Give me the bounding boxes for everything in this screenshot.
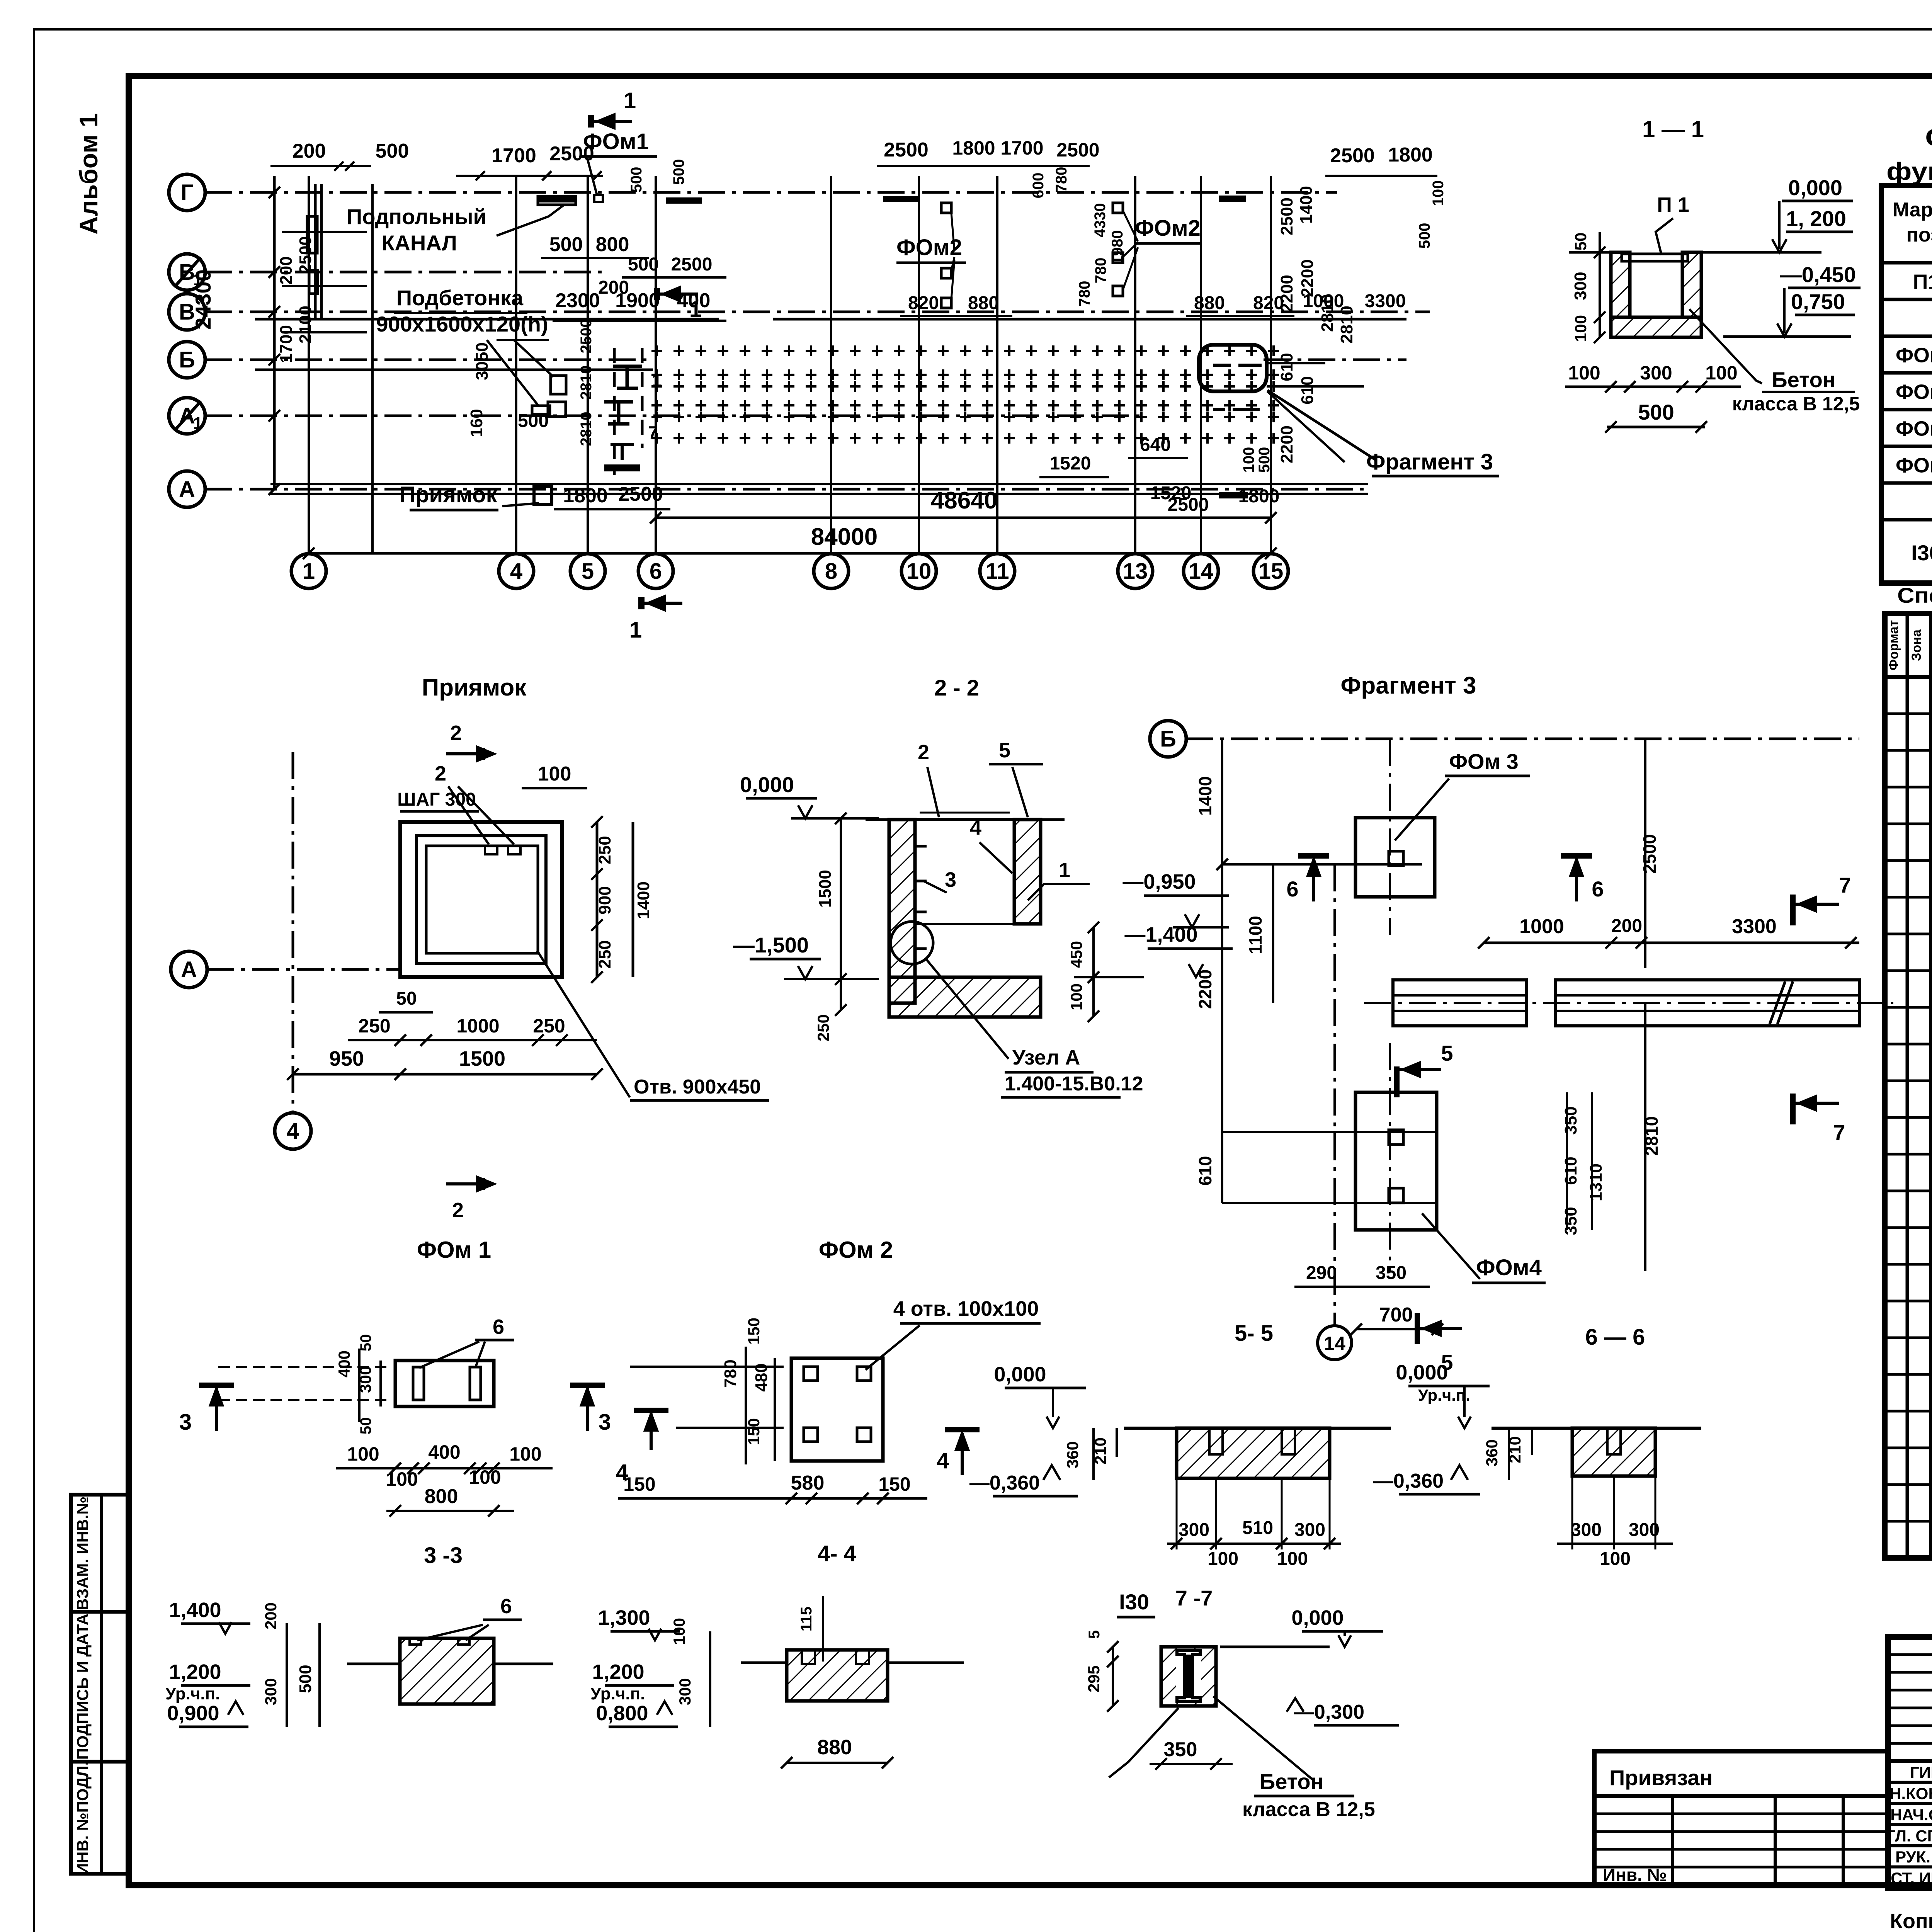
svg-text:1: 1 <box>1059 859 1070 882</box>
svg-text:3300: 3300 <box>1732 915 1777 938</box>
svg-text:Б: Б <box>1160 726 1176 752</box>
svg-text:2500: 2500 <box>1639 834 1660 874</box>
svg-text:6: 6 <box>650 559 662 584</box>
svg-text:2500: 2500 <box>1330 145 1375 167</box>
svg-text:1500: 1500 <box>816 870 835 908</box>
svg-text:1 — 1: 1 — 1 <box>1642 116 1704 142</box>
svg-text:24300: 24300 <box>191 269 215 330</box>
svg-text:610: 610 <box>1195 1156 1215 1186</box>
svg-text:350: 350 <box>1164 1738 1197 1761</box>
svg-text:300: 300 <box>676 1678 694 1705</box>
svg-text:2500: 2500 <box>1056 139 1099 161</box>
svg-text:2500: 2500 <box>296 236 315 274</box>
svg-text:—1,400: —1,400 <box>1124 923 1197 946</box>
svg-text:100: 100 <box>1705 362 1737 384</box>
svg-text:780: 780 <box>1053 167 1070 193</box>
svg-text:290: 290 <box>1306 1263 1337 1283</box>
svg-text:900х1600х120(h): 900х1600х120(h) <box>376 312 548 336</box>
svg-text:7 -7: 7 -7 <box>1175 1586 1213 1610</box>
svg-text:Спецификация элементов приямка: Спецификация элементов приямка, фундамен… <box>1897 583 1932 607</box>
svg-text:3: 3 <box>179 1410 192 1435</box>
svg-text:1400: 1400 <box>1195 776 1215 816</box>
svg-text:200: 200 <box>277 256 296 284</box>
svg-text:Альбом 1: Альбом 1 <box>74 113 103 235</box>
svg-text:1400: 1400 <box>1297 186 1316 224</box>
svg-text:1, 200: 1, 200 <box>1786 206 1846 231</box>
svg-text:Бетон: Бетон <box>1772 367 1835 392</box>
svg-text:200: 200 <box>293 140 326 162</box>
svg-text:П1: П1 <box>1913 270 1932 294</box>
svg-text:4330: 4330 <box>1092 203 1109 238</box>
svg-text:ФОм1: ФОм1 <box>1896 344 1932 367</box>
svg-text:2500: 2500 <box>884 139 929 161</box>
svg-text:8: 8 <box>825 559 837 584</box>
svg-text:0,000: 0,000 <box>1788 175 1842 200</box>
svg-text:КАНАЛ: КАНАЛ <box>381 231 457 255</box>
svg-text:100: 100 <box>1568 362 1600 384</box>
svg-text:1,200: 1,200 <box>169 1660 221 1684</box>
svg-text:500: 500 <box>1256 447 1273 473</box>
svg-text:1: 1 <box>624 88 636 113</box>
svg-text:350: 350 <box>1561 1207 1580 1235</box>
svg-text:1700: 1700 <box>277 325 296 363</box>
svg-text:610: 610 <box>1298 376 1317 404</box>
svg-text:115: 115 <box>798 1607 815 1632</box>
svg-text:П 1: П 1 <box>1657 193 1689 216</box>
svg-text:Фрагмент 3: Фрагмент 3 <box>1366 449 1493 474</box>
svg-text:5: 5 <box>999 739 1010 762</box>
svg-text:2200: 2200 <box>1277 425 1296 463</box>
svg-text:100: 100 <box>1277 1549 1308 1569</box>
svg-text:13: 13 <box>1123 559 1148 584</box>
svg-text:класса В 12,5: класса В 12,5 <box>1242 1798 1375 1821</box>
svg-text:3 -3: 3 -3 <box>424 1543 463 1568</box>
svg-text:2200: 2200 <box>1298 259 1317 297</box>
svg-text:2810: 2810 <box>578 412 595 446</box>
svg-text:5: 5 <box>1441 1041 1453 1065</box>
svg-text:100: 100 <box>509 1443 541 1465</box>
svg-text:100: 100 <box>538 763 571 785</box>
svg-text:РУК. ГР.: РУК. ГР. <box>1895 1848 1932 1866</box>
svg-text:ФОм2: ФОм2 <box>896 235 962 260</box>
svg-text:1800: 1800 <box>1238 486 1280 507</box>
svg-text:300: 300 <box>262 1678 280 1705</box>
svg-text:2500: 2500 <box>671 254 713 275</box>
svg-text:600: 600 <box>1030 173 1047 199</box>
svg-text:880: 880 <box>968 293 999 313</box>
svg-text:2: 2 <box>435 762 446 785</box>
svg-text:1100: 1100 <box>1245 916 1265 954</box>
svg-text:48640: 48640 <box>931 487 997 514</box>
svg-text:780: 780 <box>1076 281 1093 307</box>
svg-text:6: 6 <box>500 1595 512 1618</box>
svg-text:0,900: 0,900 <box>167 1702 219 1725</box>
svg-text:1900: 1900 <box>615 289 660 312</box>
svg-text:100: 100 <box>1600 1549 1631 1569</box>
svg-text:Фрагмент 3: Фрагмент 3 <box>1341 672 1476 699</box>
svg-text:300: 300 <box>1571 1520 1602 1540</box>
svg-text:880: 880 <box>817 1736 852 1759</box>
svg-text:2500: 2500 <box>578 319 595 354</box>
svg-text:880: 880 <box>1194 293 1225 313</box>
svg-text:ФОм 2: ФОм 2 <box>819 1237 893 1263</box>
svg-text:Формат: Формат <box>1886 620 1901 670</box>
svg-text:5: 5 <box>1086 1630 1103 1639</box>
svg-text:250: 250 <box>358 1015 390 1037</box>
svg-text:800: 800 <box>596 233 629 256</box>
svg-text:0,750: 0,750 <box>1791 289 1845 314</box>
svg-text:200: 200 <box>262 1602 280 1629</box>
svg-text:580: 580 <box>791 1472 825 1494</box>
svg-text:950: 950 <box>329 1047 364 1070</box>
svg-text:640: 640 <box>1140 435 1171 455</box>
svg-text:—0,360: —0,360 <box>969 1472 1040 1494</box>
svg-text:200: 200 <box>1611 916 1642 936</box>
svg-text:Копировал: Копировал <box>1890 1910 1932 1932</box>
svg-text:150: 150 <box>745 1418 763 1445</box>
svg-text:ПОДПИСЬ И ДАТА: ПОДПИСЬ И ДАТА <box>73 1614 92 1760</box>
svg-text:100: 100 <box>1067 983 1085 1010</box>
svg-text:11: 11 <box>985 559 1009 584</box>
svg-text:4: 4 <box>510 559 522 584</box>
svg-text:2810: 2810 <box>1337 306 1356 344</box>
svg-text:1,400: 1,400 <box>169 1599 221 1622</box>
svg-text:ИНВ. №ПОДЛ.: ИНВ. №ПОДЛ. <box>73 1761 92 1875</box>
svg-text:700: 700 <box>1379 1304 1413 1326</box>
svg-text:0,800: 0,800 <box>596 1702 648 1725</box>
svg-text:ФОм3: ФОм3 <box>1896 417 1932 440</box>
svg-text:1: 1 <box>629 617 642 643</box>
svg-text:500: 500 <box>376 140 409 162</box>
svg-text:2100: 2100 <box>296 306 315 344</box>
svg-text:1: 1 <box>303 559 315 584</box>
svg-text:100: 100 <box>1571 315 1590 342</box>
svg-text:Приямок: Приямок <box>422 674 527 701</box>
svg-text:1,200: 1,200 <box>592 1660 644 1684</box>
svg-text:2810: 2810 <box>1318 294 1337 332</box>
svg-text:поз.: поз. <box>1906 224 1932 246</box>
svg-text:Отв. 900х450: Отв. 900х450 <box>634 1076 761 1098</box>
svg-text:А: А <box>179 477 195 502</box>
svg-text:1310: 1310 <box>1587 1163 1605 1201</box>
svg-text:4: 4 <box>616 1460 628 1485</box>
svg-text:100: 100 <box>1430 180 1447 206</box>
svg-text:2: 2 <box>450 721 462 745</box>
svg-text:1700: 1700 <box>1000 137 1043 159</box>
svg-text:400: 400 <box>335 1350 353 1378</box>
svg-text:Ур.ч.п.: Ур.ч.п. <box>165 1684 220 1703</box>
svg-text:300: 300 <box>1294 1520 1325 1540</box>
svg-text:СТ. ИНЖ.: СТ. ИНЖ. <box>1891 1869 1932 1887</box>
svg-text:300: 300 <box>1571 272 1590 300</box>
svg-text:510: 510 <box>1242 1518 1273 1538</box>
svg-text:2: 2 <box>918 741 929 764</box>
svg-text:1520: 1520 <box>1050 453 1091 474</box>
svg-text:6: 6 <box>493 1315 504 1338</box>
svg-text:500: 500 <box>628 167 645 193</box>
svg-text:ФОм4: ФОм4 <box>1896 454 1932 477</box>
svg-text:360: 360 <box>1483 1439 1501 1466</box>
svg-text:Б: Б <box>179 347 195 372</box>
svg-text:—0,950: —0,950 <box>1122 870 1196 893</box>
svg-text:7: 7 <box>1833 1120 1845 1145</box>
svg-text:2200: 2200 <box>1277 275 1296 313</box>
svg-text:—0,450: —0,450 <box>1780 262 1856 287</box>
svg-text:780: 780 <box>1092 258 1109 284</box>
svg-text:350: 350 <box>1376 1263 1406 1283</box>
svg-text:0,000: 0,000 <box>1291 1606 1344 1629</box>
svg-text:4: 4 <box>937 1448 949 1473</box>
svg-text:3050: 3050 <box>473 342 492 380</box>
svg-text:500: 500 <box>1638 400 1674 424</box>
svg-text:100: 100 <box>347 1443 379 1465</box>
svg-text:500: 500 <box>549 233 583 256</box>
svg-text:4- 4: 4- 4 <box>818 1541 856 1566</box>
svg-text:6: 6 <box>1286 877 1298 901</box>
svg-text:50: 50 <box>1571 233 1590 251</box>
svg-text:1000: 1000 <box>456 1015 499 1037</box>
svg-text:ФОм4: ФОм4 <box>1476 1255 1542 1280</box>
svg-text:100: 100 <box>670 1618 688 1645</box>
svg-text:—0,300: —0,300 <box>1294 1701 1364 1723</box>
svg-text:1.400-15.В0.12: 1.400-15.В0.12 <box>1005 1073 1143 1095</box>
svg-text:—1,500: —1,500 <box>733 933 809 957</box>
svg-text:7: 7 <box>1839 873 1851 897</box>
svg-text:0,000: 0,000 <box>994 1363 1046 1386</box>
svg-text:150: 150 <box>745 1318 763 1345</box>
svg-text:780: 780 <box>721 1359 740 1388</box>
svg-text:300: 300 <box>1640 362 1672 384</box>
svg-text:0,000: 0,000 <box>1396 1361 1448 1384</box>
svg-text:610: 610 <box>1561 1156 1580 1185</box>
svg-text:50: 50 <box>396 988 417 1009</box>
svg-text:6 — 6: 6 — 6 <box>1585 1325 1645 1350</box>
svg-text:5- 5: 5- 5 <box>1235 1321 1273 1346</box>
svg-text:100: 100 <box>469 1466 501 1488</box>
svg-text:14: 14 <box>1324 1333 1345 1354</box>
svg-text:фундаментов под оборудование: фундаментов под оборудование, подпольных… <box>1886 157 1932 185</box>
svg-text:Ур.ч.п.: Ур.ч.п. <box>590 1684 645 1703</box>
svg-text:150: 150 <box>878 1473 910 1495</box>
svg-text:Подпольный: Подпольный <box>347 204 486 229</box>
svg-text:500: 500 <box>670 159 687 185</box>
svg-text:84000: 84000 <box>811 524 878 550</box>
svg-text:1,300: 1,300 <box>598 1606 650 1629</box>
svg-text:3300: 3300 <box>1365 291 1406 311</box>
svg-text:Узел А: Узел А <box>1012 1046 1080 1069</box>
svg-text:10: 10 <box>906 559 932 584</box>
svg-text:Инв. №: Инв. № <box>1603 1865 1667 1885</box>
svg-text:14: 14 <box>1189 559 1214 584</box>
svg-text:1000: 1000 <box>1519 915 1564 938</box>
svg-text:900: 900 <box>595 886 614 914</box>
svg-text:Подбетонка: Подбетонка <box>396 286 524 310</box>
svg-text:Бетон: Бетон <box>1260 1769 1323 1794</box>
svg-text:4: 4 <box>287 1119 299 1144</box>
svg-text:100: 100 <box>1240 447 1257 473</box>
svg-text:250: 250 <box>533 1015 565 1037</box>
svg-text:800: 800 <box>425 1485 458 1508</box>
svg-text:1800: 1800 <box>563 485 608 507</box>
svg-text:Ур.ч.п.: Ур.ч.п. <box>1418 1386 1470 1404</box>
svg-text:5: 5 <box>582 559 594 584</box>
svg-text:ГЛ. СПЕЦ.: ГЛ. СПЕЦ. <box>1886 1827 1932 1845</box>
svg-text:450: 450 <box>1067 941 1085 968</box>
svg-text:ФОм2: ФОм2 <box>1896 381 1932 404</box>
svg-text:1: 1 <box>193 414 202 433</box>
svg-text:1400: 1400 <box>634 881 653 919</box>
svg-text:2500: 2500 <box>1168 495 1209 515</box>
svg-text:1800: 1800 <box>1388 144 1433 166</box>
svg-text:1800: 1800 <box>952 137 995 159</box>
svg-text:250: 250 <box>595 836 614 864</box>
svg-text:15: 15 <box>1259 559 1284 584</box>
svg-text:НАЧ.ОТД: НАЧ.ОТД <box>1890 1806 1932 1824</box>
svg-text:Зона: Зона <box>1909 629 1924 661</box>
svg-text:250: 250 <box>814 1014 832 1041</box>
svg-text:100: 100 <box>1207 1549 1238 1569</box>
svg-text:100: 100 <box>386 1468 418 1490</box>
svg-text:4 отв. 100х100: 4 отв. 100х100 <box>893 1297 1039 1320</box>
svg-text:250: 250 <box>595 940 614 968</box>
svg-text:4: 4 <box>970 816 981 839</box>
svg-text:—0,360: —0,360 <box>1373 1470 1444 1492</box>
svg-text:ФОм2: ФОм2 <box>1135 216 1201 241</box>
svg-text:360: 360 <box>1063 1441 1082 1468</box>
svg-text:Н.КОНТР.: Н.КОНТР. <box>1889 1784 1932 1803</box>
svg-text:ФОм 1: ФОм 1 <box>417 1237 491 1263</box>
svg-text:ГИП: ГИП <box>1910 1763 1932 1781</box>
svg-text:1500: 1500 <box>459 1047 505 1070</box>
svg-text:Г: Г <box>181 180 194 205</box>
svg-text:820: 820 <box>908 293 939 313</box>
svg-text:2300: 2300 <box>555 289 600 312</box>
svg-text:I30: I30 <box>1119 1590 1149 1614</box>
svg-text:3: 3 <box>599 1410 611 1435</box>
svg-text:класса В 12,5: класса В 12,5 <box>1732 393 1860 415</box>
svg-text:1700: 1700 <box>492 145 536 167</box>
svg-text:ВЗАМ. ИНВ.№: ВЗАМ. ИНВ.№ <box>73 1497 92 1610</box>
svg-text:ФОм 3: ФОм 3 <box>1449 749 1518 774</box>
svg-text:6: 6 <box>1592 877 1604 901</box>
svg-text:160: 160 <box>467 409 486 437</box>
svg-text:Спецификация элементов к сх: Спецификация элементов к схеме расположе… <box>1925 124 1932 151</box>
svg-text:500: 500 <box>628 254 659 275</box>
svg-text:500: 500 <box>1416 223 1433 249</box>
svg-text:400: 400 <box>428 1441 460 1463</box>
svg-text:I30: I30 <box>1911 541 1932 565</box>
svg-text:2: 2 <box>452 1199 464 1222</box>
svg-text:300: 300 <box>1179 1520 1209 1540</box>
svg-text:3: 3 <box>945 868 956 891</box>
svg-text:0,000: 0,000 <box>740 772 794 797</box>
svg-text:А: А <box>181 957 197 982</box>
svg-text:500: 500 <box>296 1665 315 1693</box>
svg-text:2500: 2500 <box>1277 197 1296 235</box>
svg-text:295: 295 <box>1085 1665 1103 1692</box>
svg-text:ФОм1: ФОм1 <box>583 129 649 154</box>
svg-text:610: 610 <box>1277 353 1296 381</box>
svg-text:350: 350 <box>1561 1106 1580 1134</box>
svg-text:2 - 2: 2 - 2 <box>934 675 979 701</box>
svg-text:Привязан: Привязан <box>1609 1765 1713 1790</box>
svg-text:Марка,: Марка, <box>1893 199 1932 221</box>
